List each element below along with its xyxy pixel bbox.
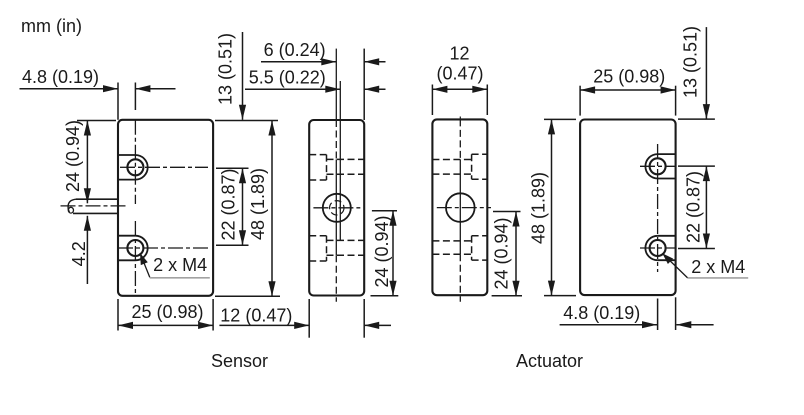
svg-text:25 (0.98): 25 (0.98) <box>131 302 203 322</box>
svg-text:5.5 (0.22): 5.5 (0.22) <box>249 68 326 88</box>
svg-text:48 (1.89): 48 (1.89) <box>248 168 268 240</box>
svg-text:(0.47): (0.47) <box>436 64 483 84</box>
svg-text:25 (0.98): 25 (0.98) <box>593 66 665 86</box>
svg-text:24 (0.94): 24 (0.94) <box>372 215 392 287</box>
svg-text:13 (0.51): 13 (0.51) <box>216 33 236 105</box>
svg-text:2 x M4: 2 x M4 <box>691 257 745 277</box>
svg-text:Actuator: Actuator <box>516 351 583 371</box>
svg-text:Sensor: Sensor <box>211 351 268 371</box>
svg-text:22 (0.87): 22 (0.87) <box>219 168 239 240</box>
svg-text:12: 12 <box>449 44 469 64</box>
svg-text:2 x M4: 2 x M4 <box>153 255 207 275</box>
svg-text:6 (0.24): 6 (0.24) <box>264 40 326 60</box>
svg-text:24 (0.94): 24 (0.94) <box>492 217 512 289</box>
svg-text:4.8 (0.19): 4.8 (0.19) <box>563 303 640 323</box>
svg-text:22 (0.87): 22 (0.87) <box>684 171 704 243</box>
svg-text:4.2: 4.2 <box>69 241 89 266</box>
svg-text:13 (0.51): 13 (0.51) <box>681 26 701 98</box>
svg-text:24 (0.94): 24 (0.94) <box>63 120 83 192</box>
svg-text:4.8 (0.19): 4.8 (0.19) <box>22 67 99 87</box>
svg-text:mm (in): mm (in) <box>21 16 82 36</box>
svg-text:48 (1.89): 48 (1.89) <box>529 172 549 244</box>
svg-text:12 (0.47): 12 (0.47) <box>220 305 292 325</box>
